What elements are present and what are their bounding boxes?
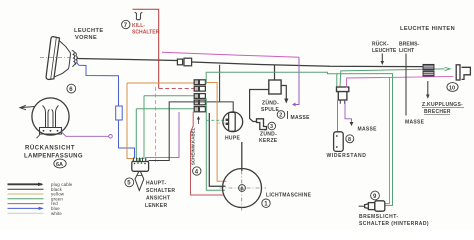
- svg-text:BRECHER: BRECHER: [424, 109, 451, 115]
- wire green dashed to horn: [206, 119, 226, 121]
- wire green branch down to plug: [336, 74, 338, 87]
- svg-text:SCHALTER: SCHALTER: [132, 30, 160, 36]
- svg-text:2: 2: [279, 113, 282, 119]
- connector stack pair 4: [194, 100, 205, 105]
- svg-text:white: white: [51, 211, 62, 216]
- magneto 1 circle: [223, 169, 262, 208]
- connector on black bus: [177, 59, 182, 65]
- connector on blue wire: [116, 106, 123, 120]
- svg-text:KERZE: KERZE: [259, 138, 278, 144]
- svg-text:RÜCK-: RÜCK-: [372, 41, 389, 48]
- node 2: [277, 111, 285, 119]
- horn membrane: [229, 112, 236, 131]
- ignition coil box: [269, 80, 281, 94]
- wire purple from socket base: [62, 132, 109, 136]
- svg-text:MASSE: MASSE: [358, 127, 378, 133]
- label MASSE at coil: [287, 111, 289, 119]
- svg-text:BREMS-: BREMS-: [399, 42, 420, 48]
- svg-text:LICHTMASCHINE: LICHTMASCHINE: [266, 193, 312, 199]
- horn circle: [223, 112, 243, 132]
- tail connector upper (hatched): [423, 64, 434, 69]
- connector stack pair 1: [194, 80, 205, 85]
- svg-text:8: 8: [348, 137, 351, 143]
- wire orange to magneto: [205, 83, 226, 182]
- tail connector lower (hatched): [423, 71, 434, 76]
- wire purple plug to masse: [345, 100, 352, 124]
- wire black bus branch to ignition coil: [274, 65, 276, 80]
- connector stack pair 2: [194, 86, 205, 91]
- svg-text:MASSE: MASSE: [291, 115, 311, 121]
- wire green plug to resistor: [337, 100, 339, 132]
- wire green loop to stack: [136, 108, 199, 110]
- node 6: [67, 84, 76, 93]
- node 8: [346, 135, 354, 143]
- svg-text:ZÜND-: ZÜND-: [262, 100, 279, 107]
- svg-text:RÜCKANSICHT: RÜCKANSICHT: [25, 145, 75, 152]
- svg-text:Z.KUPPLUNGS-: Z.KUPPLUNGS-: [422, 102, 463, 108]
- wire black down from connector with arrow: [427, 81, 429, 97]
- legend black: [8, 188, 44, 190]
- wire magenta top bus: [162, 52, 299, 57]
- wire red from kill switch: [133, 9, 159, 88]
- node 10: [447, 83, 458, 92]
- headlight 6 Leuchte vorne (side view): [46, 36, 73, 81]
- legend green: [8, 198, 44, 200]
- wire black to masse (brems): [405, 54, 407, 116]
- node 3: [268, 122, 276, 130]
- wire yellow dashed to horn: [217, 122, 226, 124]
- magneto crosshair: [241, 162, 243, 213]
- wire purple drop to ignition coil: [294, 57, 300, 104]
- svg-text:ZÜND-: ZÜND-: [260, 131, 277, 138]
- legend white: [8, 212, 44, 214]
- svg-text:MASSE: MASSE: [405, 120, 425, 126]
- wire purple from switch to right: [146, 112, 179, 161]
- wire blue continues to switch: [119, 120, 135, 159]
- svg-text:LEUCHTE: LEUCHTE: [372, 48, 397, 54]
- node 6A: [54, 159, 66, 168]
- main switch 5 body: [132, 161, 149, 171]
- node 7: [122, 20, 130, 29]
- kill switch 7 glyph: [135, 12, 143, 20]
- svg-text:LAMPENFASSUNG: LAMPENFASSUNG: [24, 154, 83, 160]
- tail lamp socket bracket 10: [456, 65, 470, 80]
- headlight socket bumps: [72, 51, 78, 67]
- socket prongs: [43, 106, 59, 128]
- svg-text:LEUCHTE HINTEN: LEUCHTE HINTEN: [400, 26, 455, 32]
- svg-text:ANSICHT: ANSICHT: [146, 196, 170, 202]
- wire green bus to brake switch: [206, 72, 392, 205]
- wire blue from headlight to main switch: [77, 63, 119, 107]
- svg-text:HAUPT-: HAUPT-: [146, 181, 166, 187]
- svg-text:SPULE: SPULE: [261, 107, 280, 113]
- svg-text:10: 10: [449, 85, 455, 91]
- node 4: [193, 167, 201, 176]
- svg-text:WIDERSTAND: WIDERSTAND: [327, 153, 367, 159]
- arrow out of socket top-left: [21, 107, 35, 108]
- svg-text:KILL-: KILL-: [132, 23, 145, 29]
- switch key blade: [135, 172, 144, 191]
- svg-text:LICHT: LICHT: [399, 48, 414, 54]
- wire red to magneto: [191, 112, 225, 195]
- legend blue: [8, 207, 43, 209]
- wire black from switch to bus: [149, 65, 234, 161]
- brake light switch 9: [359, 201, 385, 211]
- wire magenta dashed from kill line down to switch: [155, 87, 157, 162]
- headlight centerline (dash-dot): [40, 57, 78, 59]
- svg-text:LENKER: LENKER: [145, 203, 167, 209]
- node 9: [371, 191, 380, 200]
- svg-text:3: 3: [270, 124, 273, 130]
- wire magenta down to brake switch: [385, 77, 390, 203]
- wire green to magneto: [206, 98, 225, 190]
- svg-text:BREMSLICHT-: BREMSLICHT-: [359, 214, 399, 220]
- wire magenta dashed to connector stack: [159, 88, 194, 90]
- connector stack pair 3: [194, 94, 205, 99]
- wire orange headlamp circuit: [127, 82, 194, 84]
- svg-text:VORNE: VORNE: [75, 35, 97, 41]
- svg-text:LEUCHTE: LEUCHTE: [74, 28, 104, 34]
- wire magenta from plug to rear: [347, 76, 454, 87]
- node 5: [125, 178, 134, 187]
- wire black to magneto: [209, 113, 225, 186]
- connector stack pair 5: [194, 107, 205, 112]
- legend yellow: [8, 193, 44, 195]
- spark clamp 3: [257, 119, 267, 130]
- svg-text:HUPE: HUPE: [225, 136, 240, 142]
- wire black main bus from headlight to rear: [77, 59, 178, 61]
- resistor 8: [334, 132, 344, 152]
- legend red: [8, 203, 44, 205]
- wire black from coil down to magneto top: [241, 142, 243, 171]
- legend plug cable: [8, 183, 43, 185]
- rear-view lamp socket circle 6A: [32, 98, 69, 135]
- switch pins: [134, 158, 146, 162]
- svg-text:SCHALTER (HINTERRAD): SCHALTER (HINTERRAD): [359, 221, 429, 227]
- svg-text:SCHEINW.KABEL: SCHEINW.KABEL: [191, 127, 196, 165]
- arrow rueck-leuchte: [381, 54, 383, 64]
- label MASSE arrow near plug: [350, 122, 354, 126]
- svg-text:SCHALTER: SCHALTER: [146, 188, 175, 194]
- socket base: [40, 128, 62, 135]
- coil HT lead with arrow: [281, 86, 286, 101]
- svg-text:6A: 6A: [56, 162, 63, 168]
- wire black bus continues: [192, 62, 423, 67]
- magneto center: [239, 185, 246, 192]
- spark plug connector: [337, 87, 349, 92]
- node 1: [262, 199, 270, 208]
- wire green plug to tail lamp with arrow: [340, 69, 445, 87]
- coil feed wire + down to spark clamp: [250, 90, 269, 122]
